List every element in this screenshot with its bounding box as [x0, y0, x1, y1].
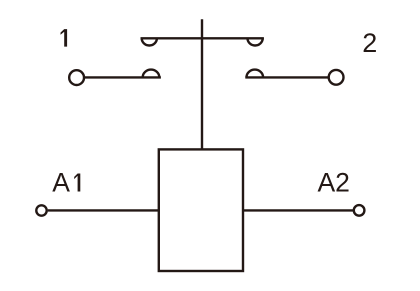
terminal circle A2	[354, 205, 365, 216]
wire: A2 lead	[243, 209, 354, 211]
svg-text:A2: A2	[318, 168, 350, 198]
label 1 (terminal number)	[61, 29, 68, 46]
wire: A1 lead	[48, 209, 159, 211]
moving contact bump (right, under bridge)	[248, 38, 263, 45]
fixed contact bump (right pole)	[247, 70, 264, 78]
wire: moving contact bridge bar	[141, 37, 264, 39]
wire: fixed contact lead from terminal 1	[85, 76, 161, 78]
terminal circle 2	[329, 70, 344, 85]
fixed contact bump (left pole)	[143, 70, 160, 78]
svg-text:A: A	[52, 168, 70, 198]
terminal circle A1	[36, 205, 46, 215]
moving contact bump (left, under bridge)	[142, 38, 157, 45]
wire: fixed contact lead from terminal 2	[245, 76, 329, 78]
coil (operating coil rectangle)	[159, 149, 243, 271]
wire: vertical actuator line	[201, 19, 203, 149]
terminal circle 1	[69, 70, 84, 85]
svg-text:2: 2	[362, 28, 377, 58]
